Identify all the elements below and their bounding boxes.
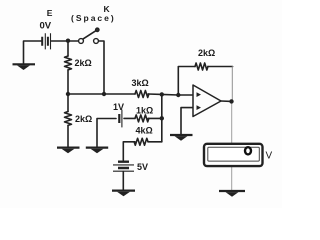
wire op-amp output	[221, 100, 232, 102]
svg-text:1V: 1V	[113, 102, 124, 112]
ground under R2	[57, 148, 80, 154]
battery E plates	[42, 33, 50, 49]
wire feedback down to output node (faint)	[231, 67, 233, 101]
svg-text:0V: 0V	[40, 21, 52, 32]
svg-text:5V: 5V	[137, 162, 148, 172]
svg-text:1kΩ: 1kΩ	[136, 106, 153, 116]
node B switch-branch junction	[102, 92, 106, 96]
svg-text:3kΩ: 3kΩ	[132, 78, 149, 88]
switch K	[79, 28, 99, 43]
ground under 5V battery	[112, 191, 135, 197]
node op-amp output junction	[229, 99, 233, 103]
wire switch to vertical drop	[99, 41, 105, 94]
wire left top rail to ground	[24, 41, 79, 64]
node summing bus top junction	[160, 92, 164, 96]
resistor R6 2k feedback (horizontal zigzag)	[195, 63, 208, 70]
svg-text:E: E	[47, 8, 53, 18]
wire R2 to ground	[67, 126, 69, 148]
op-amp U1	[193, 85, 221, 117]
svg-text:V: V	[266, 150, 273, 161]
node B left junction (R1/R2/row B)	[66, 92, 70, 96]
resistor R2 2k (vertical zigzag)	[65, 112, 72, 126]
wire bus to R5	[148, 141, 162, 143]
svg-text:2kΩ: 2kΩ	[198, 48, 215, 58]
wire op-amp plus input to ground	[181, 108, 193, 135]
ground under op-amp	[170, 135, 193, 141]
node inverting input / feedback junction	[176, 93, 180, 97]
wire R4 to bus	[148, 117, 162, 119]
node summing bus / R4 junction	[160, 116, 164, 120]
wire row B	[68, 94, 193, 95]
resistor R1 2k (vertical zigzag)	[65, 56, 72, 70]
wire 1V branch left to ground	[97, 119, 116, 148]
wire battery node down to R1	[67, 41, 69, 56]
wire bus vertical	[161, 94, 163, 141]
svg-text:2kΩ: 2kΩ	[75, 58, 92, 68]
wire R5 to 5V battery	[123, 142, 135, 160]
resistor R3 3k (horizontal zigzag)	[135, 91, 149, 98]
resistor R5 4k (horizontal zigzag)	[134, 138, 148, 145]
voltmeter M1	[204, 144, 263, 166]
svg-text:(Space): (Space)	[71, 13, 116, 23]
wire node B down to R2	[67, 94, 69, 112]
wire 5V battery to ground	[122, 172, 124, 191]
ground under 1V branch	[86, 148, 108, 154]
ground under voltmeter	[219, 191, 245, 197]
svg-text:4kΩ: 4kΩ	[136, 125, 153, 135]
wire voltmeter to ground (faint)	[231, 167, 233, 191]
svg-text:2kΩ: 2kΩ	[75, 114, 92, 124]
battery 5V plates	[113, 162, 134, 172]
battery 1V plates	[119, 110, 122, 128]
wire 1V battery to R4	[124, 117, 135, 119]
ground under E battery	[13, 64, 36, 70]
wire output to voltmeter (faint)	[231, 104, 233, 144]
wire feedback loop	[178, 67, 232, 96]
node battery-E / switch / R1 junction	[66, 39, 70, 43]
resistor R4 1k (horizontal zigzag)	[135, 115, 149, 122]
wire R1 to node B	[67, 70, 69, 94]
